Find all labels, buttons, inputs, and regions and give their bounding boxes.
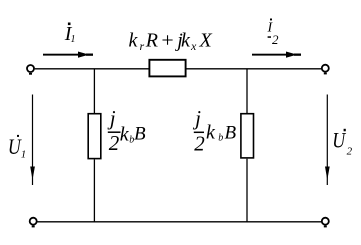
svg-text:k: k xyxy=(181,30,191,52)
svg-text:k: k xyxy=(206,122,216,144)
svg-text:B: B xyxy=(134,124,146,145)
svg-text:1: 1 xyxy=(71,34,76,45)
svg-text:2: 2 xyxy=(272,32,279,47)
svg-text:k: k xyxy=(120,124,130,146)
svg-text:j: j xyxy=(192,106,201,130)
svg-text:2: 2 xyxy=(347,146,353,158)
svg-text:k: k xyxy=(129,30,139,52)
svg-text:+: + xyxy=(160,29,175,51)
svg-text:r: r xyxy=(140,39,145,53)
svg-text:j: j xyxy=(107,106,116,130)
svg-text:U: U xyxy=(332,127,347,152)
svg-text:R: R xyxy=(145,30,158,52)
svg-text:B: B xyxy=(225,122,237,143)
svg-text:b: b xyxy=(218,132,223,143)
svg-text:1: 1 xyxy=(21,149,27,161)
svg-text:x: x xyxy=(190,39,197,53)
svg-text:2: 2 xyxy=(109,131,120,155)
svg-text:2: 2 xyxy=(194,131,205,155)
svg-text:X: X xyxy=(199,30,213,52)
